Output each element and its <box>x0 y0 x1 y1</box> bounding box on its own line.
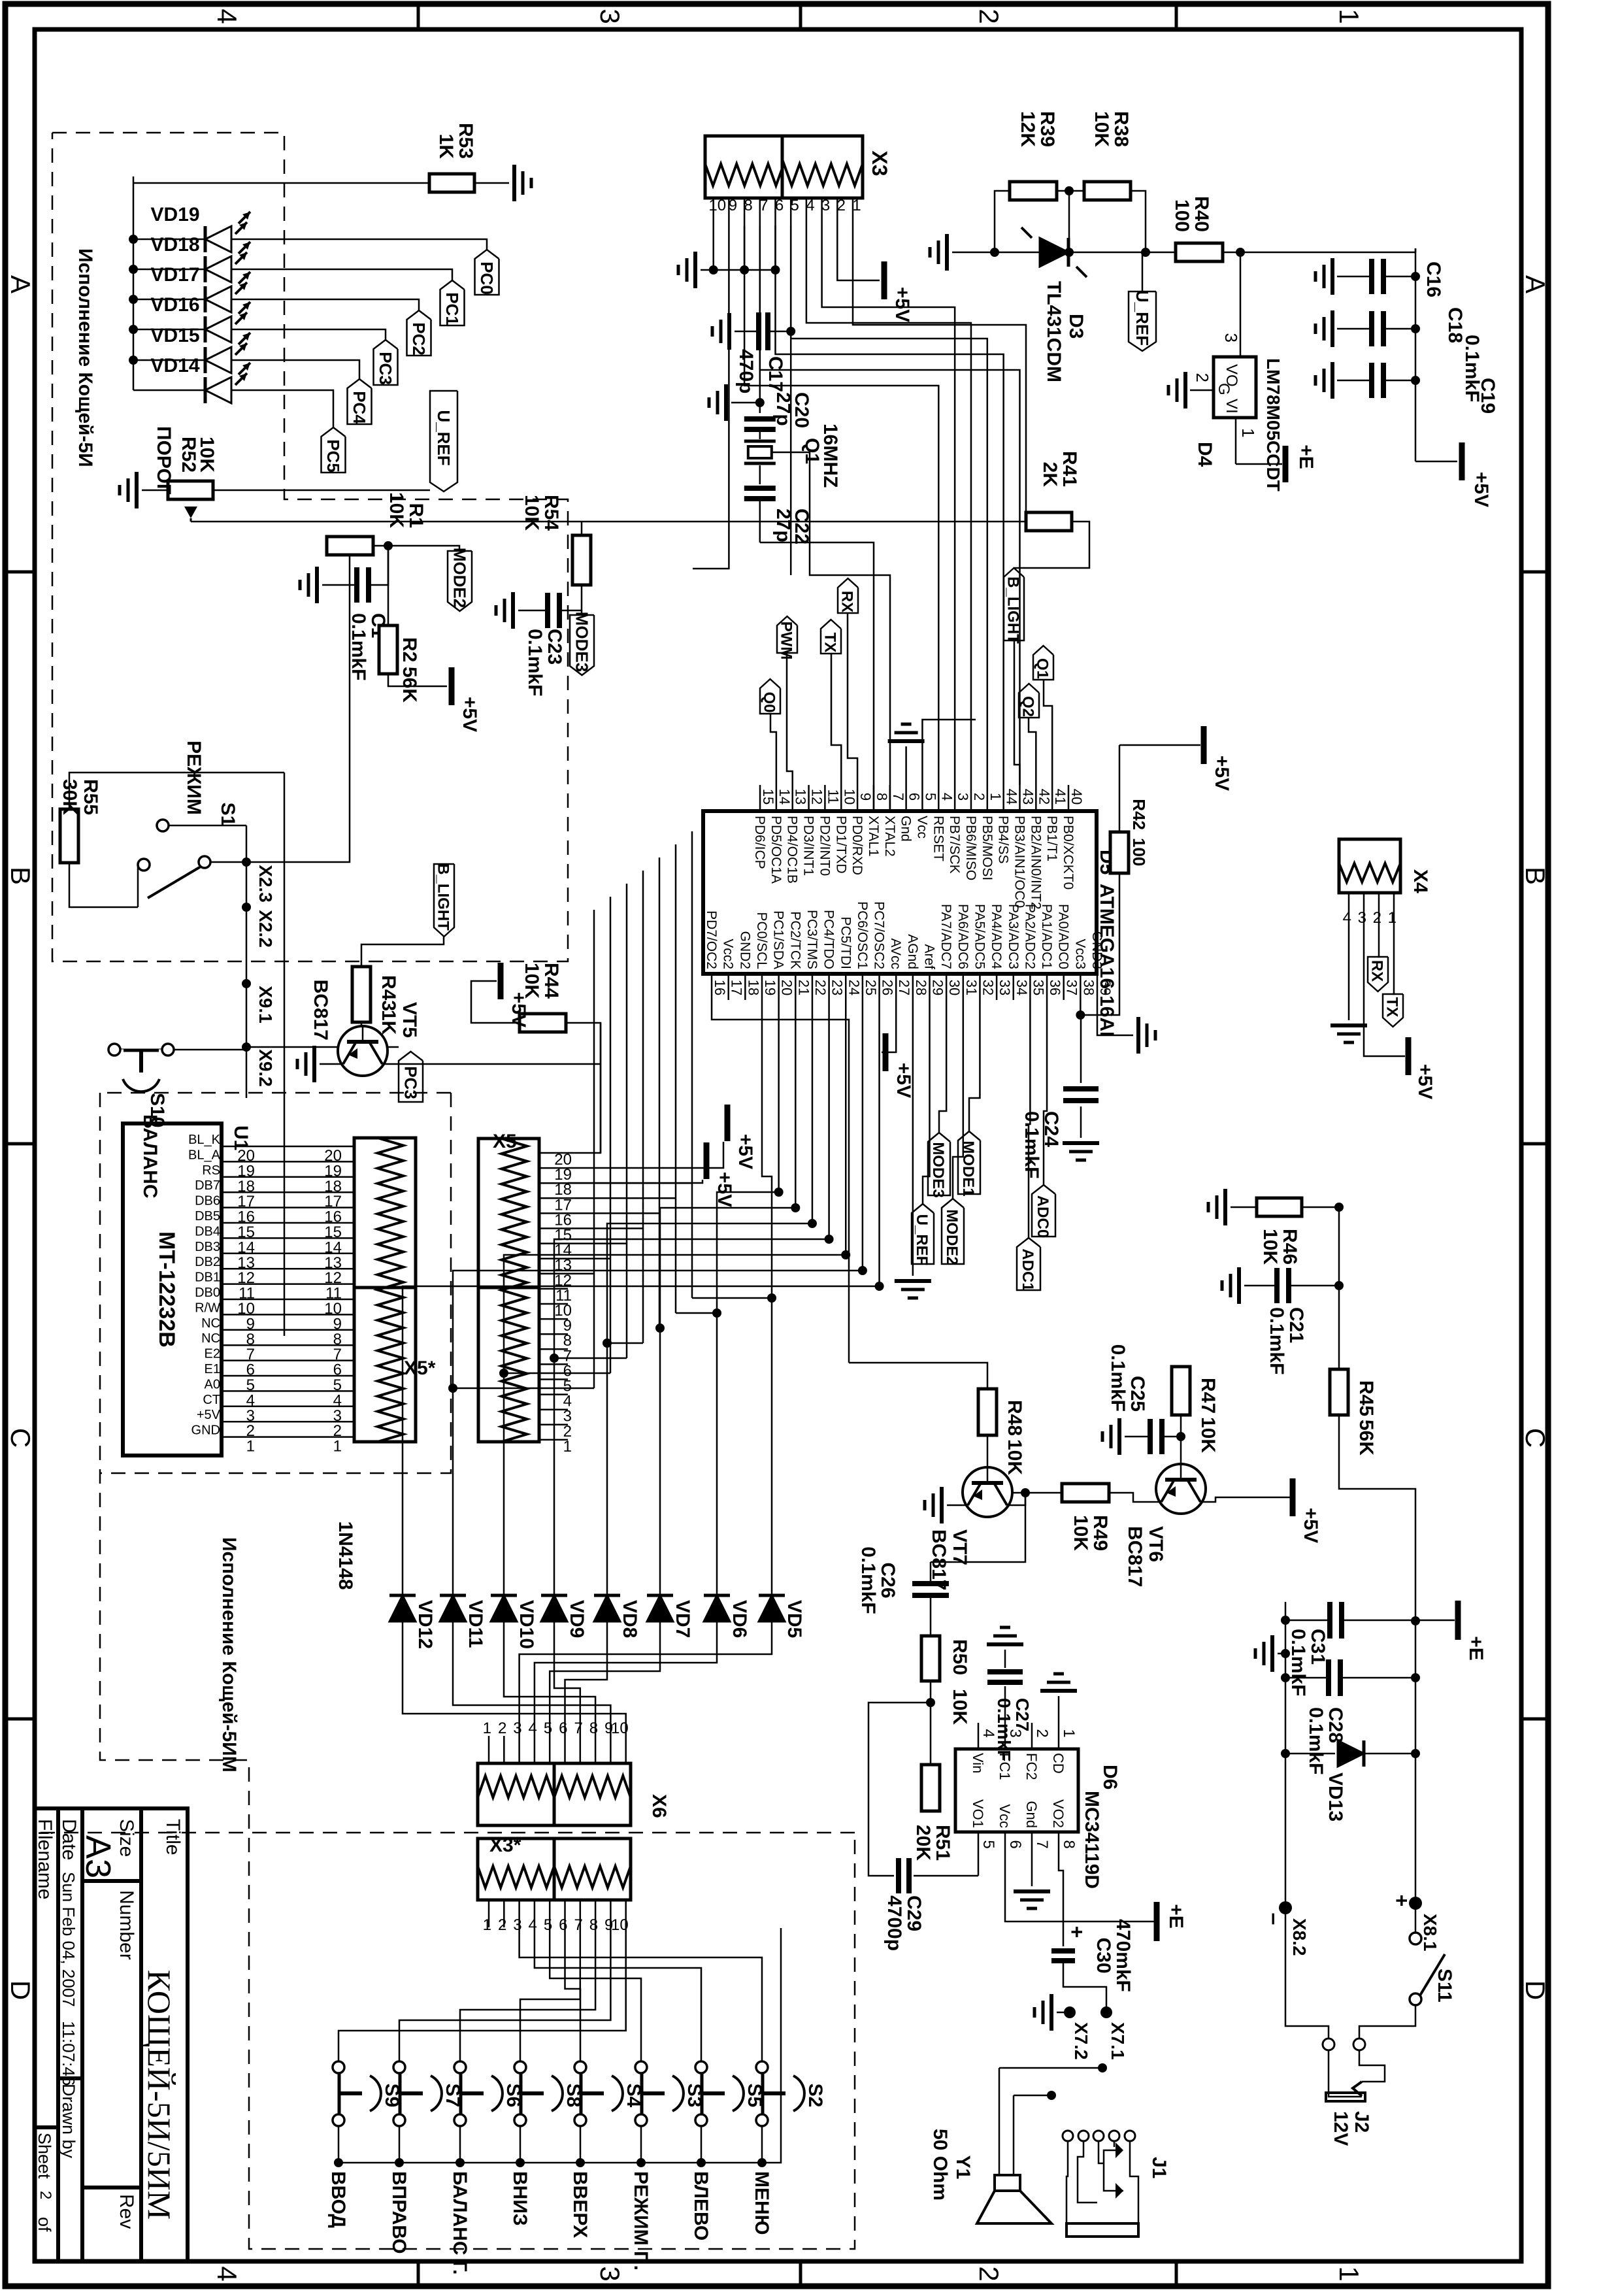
pin 12 X5 <box>539 1273 568 1275</box>
svg-text:DB2: DB2 <box>195 1255 220 1269</box>
svg-text:X2.3: X2.3 <box>256 865 276 903</box>
power +E battery <box>1455 1601 1461 1640</box>
pin 11 U1 DB1 <box>222 1283 252 1285</box>
svg-text:6: 6 <box>1006 1840 1024 1848</box>
junction X2.2 <box>242 903 251 912</box>
svg-text:VD18: VD18 <box>150 234 199 256</box>
wire VD10 anode to X6 pin <box>504 1622 595 1736</box>
svg-text:A: A <box>5 275 36 293</box>
pin 27 MCU AVcc <box>895 974 897 1000</box>
svg-text:CD: CD <box>1050 1753 1066 1774</box>
wire bus X2 line <box>284 773 286 1336</box>
resistor R46 10K <box>1257 1198 1302 1216</box>
svg-text:Sun Feb 04, 2007: Sun Feb 04, 2007 <box>59 1872 78 2007</box>
svg-text:PC4/TDO: PC4/TDO <box>821 910 836 969</box>
wire VD5 anode to X6 pin <box>520 1622 772 1736</box>
ground VT5 <box>312 1046 316 1082</box>
svg-text:1: 1 <box>246 1438 255 1456</box>
ground D6 <box>1014 1889 1050 1893</box>
wire D6 Gnd pin7 <box>1031 1858 1033 1886</box>
svg-text:3: 3 <box>1358 909 1366 927</box>
wire MODE3 flag <box>939 1000 946 1133</box>
svg-text:VD14: VD14 <box>150 355 199 376</box>
wire B_LIGHT to pin43 <box>1014 641 1019 785</box>
svg-text:DB1: DB1 <box>195 1271 220 1285</box>
wire R45 to +E rail <box>1339 1415 1415 1621</box>
svg-text:41: 41 <box>1052 789 1068 805</box>
svg-text:11:07:46: 11:07:46 <box>59 2021 78 2086</box>
svg-text:10K: 10K <box>1091 111 1112 147</box>
svg-text:+5V: +5V <box>735 1134 756 1169</box>
svg-text:10K: 10K <box>1259 1229 1281 1265</box>
net flag PC1 <box>440 280 465 325</box>
pin 15 X5 <box>539 1227 568 1229</box>
svg-text:7: 7 <box>574 1720 582 1737</box>
svg-text:+: + <box>1390 1895 1413 1907</box>
wire R38-R39 junction <box>1057 190 1084 192</box>
svg-text:+E: +E <box>1465 1636 1487 1661</box>
svg-text:GND2: GND2 <box>737 931 752 969</box>
svg-text:R50: R50 <box>949 1639 970 1675</box>
wire Q2 flag <box>1029 718 1036 785</box>
svg-text:DB4: DB4 <box>195 1224 220 1239</box>
svg-text:2: 2 <box>837 197 846 214</box>
wire X3 pin6 to MCU pin 44 <box>776 225 1004 785</box>
ground C19 <box>1331 362 1334 399</box>
pin 2 X4 <box>1378 893 1380 920</box>
capacitor C26 0.1mkF <box>912 1581 949 1586</box>
svg-text:R53: R53 <box>455 123 476 159</box>
svg-text:16MHZ: 16MHZ <box>819 424 841 488</box>
svg-text:J2: J2 <box>1351 2111 1372 2133</box>
svg-text:D: D <box>5 1980 36 2000</box>
wire X3* pins 1 2 <box>489 1927 781 1944</box>
svg-text:PC2/TCK: PC2/TCK <box>787 911 802 969</box>
svg-text:20: 20 <box>779 980 795 995</box>
svg-text:3: 3 <box>513 1916 521 1934</box>
svg-text:MODE3: MODE3 <box>572 612 592 672</box>
svg-text:X3: X3 <box>868 150 891 176</box>
svg-text:X3*: X3* <box>489 1835 521 1856</box>
wire GND3 ground <box>1097 1000 1133 1035</box>
wire VD7 anode to X6 pin <box>550 1622 660 1736</box>
net flag B_LIGHT upper <box>1004 568 1024 641</box>
pin 3 X6 <box>518 1736 520 1763</box>
wire R47 left to R45 area <box>1181 1340 1339 1367</box>
wire X5 bus lines <box>568 1182 692 1184</box>
capacitor C19 <box>1383 380 1415 382</box>
net flag B_LIGHT lower <box>434 864 454 937</box>
wire LED bus <box>133 176 135 390</box>
svg-text:28: 28 <box>913 980 929 995</box>
switch S1 REZHIM <box>157 820 169 831</box>
wire MCU pin 23 to diode row <box>554 1000 829 1595</box>
pin 7 X6 <box>580 1736 582 1763</box>
svg-text:VD6: VD6 <box>729 1600 750 1638</box>
svg-text:50 Ohm: 50 Ohm <box>929 2129 951 2201</box>
pin 2 MCU PB6/MISO <box>970 785 972 811</box>
svg-text:4: 4 <box>938 793 955 801</box>
ground VT7 emitter <box>931 1505 963 1523</box>
net flag PC2 <box>407 310 431 356</box>
wire X3 pin5 line <box>790 225 792 575</box>
wire X3 pin2 to +5V <box>837 225 880 280</box>
svg-text:4: 4 <box>212 2266 242 2281</box>
pin 7 X3 <box>759 198 761 225</box>
svg-text:VD17: VD17 <box>150 264 199 286</box>
svg-text:R2: R2 <box>399 637 420 662</box>
svg-text:NC: NC <box>201 1316 220 1331</box>
svg-text:C23: C23 <box>544 629 565 665</box>
svg-text:31: 31 <box>963 980 980 995</box>
wire minus rail <box>1285 1602 1287 1908</box>
svg-text:ADC1: ADC1 <box>1019 1248 1036 1291</box>
pin 4 MCU RESET <box>938 785 940 811</box>
svg-text:7: 7 <box>759 197 768 214</box>
svg-text:VT7: VT7 <box>949 1529 970 1565</box>
wire R55 <box>69 773 284 809</box>
wire ADC1 flag <box>1029 1000 1030 1238</box>
svg-text:12: 12 <box>809 789 825 805</box>
svg-text:1: 1 <box>1238 428 1258 437</box>
wire S1 throw <box>210 861 246 863</box>
button S5 <box>695 2061 707 2073</box>
wire long buses middle <box>691 831 693 1298</box>
wire X4 pin1 <box>1388 920 1394 946</box>
wire R52 wiper long <box>191 521 1026 523</box>
svg-text:BL_A: BL_A <box>188 1148 221 1162</box>
pin 2 D6 FC2 <box>1031 1723 1033 1749</box>
svg-text:G: G <box>1215 383 1232 395</box>
power +5V power-entry <box>1415 461 1457 463</box>
svg-text:6: 6 <box>775 197 784 214</box>
wire line R46 R45 <box>1338 1207 1340 1369</box>
dashed box variant Koschei-5I <box>52 133 568 961</box>
svg-text:2: 2 <box>498 1720 506 1737</box>
svg-text:S9: S9 <box>381 2084 403 2108</box>
pin 13 MCU PD4/OC1B <box>791 785 793 811</box>
svg-text:ВВОД: ВВОД <box>327 2171 349 2228</box>
svg-text:S8: S8 <box>563 2084 584 2108</box>
pin 20 X5 <box>539 1152 568 1154</box>
svg-text:D3: D3 <box>1065 314 1087 339</box>
ground R46 <box>1231 1206 1257 1208</box>
wire MODE1 flag <box>969 1000 980 1131</box>
svg-text:4: 4 <box>212 8 242 24</box>
svg-text:5: 5 <box>980 1840 997 1848</box>
wire R40 branch <box>1069 252 1240 254</box>
junction X9.1 <box>242 979 251 988</box>
pin 5 X6 <box>549 1736 551 1763</box>
wire VD8 anode to X6 pin <box>565 1622 608 1736</box>
ground C16 <box>1331 258 1334 295</box>
ground X7.2 <box>1057 2012 1070 2014</box>
wire J1 to amp <box>1102 2052 1136 2130</box>
svg-text:0.1mkF: 0.1mkF <box>1287 1629 1309 1696</box>
net flag U_REF power <box>1142 252 1144 291</box>
capacitor C21 0.1mkF <box>1290 1285 1339 1287</box>
junction X9.2 <box>242 1042 251 1052</box>
pin 9 U1 R/W <box>222 1314 252 1316</box>
svg-text:10K: 10K <box>521 495 542 531</box>
pin 3 J1 <box>1093 2131 1104 2141</box>
svg-text:PA0/ADC0: PA0/ADC0 <box>1056 904 1071 969</box>
svg-text:+5V: +5V <box>1300 1508 1321 1543</box>
wire R54 line <box>581 522 583 535</box>
svg-text:VT6: VT6 <box>1145 1526 1166 1562</box>
pin 15 U1 DB5 <box>222 1222 252 1224</box>
svg-text:ВЛЕВО: ВЛЕВО <box>690 2171 712 2240</box>
svg-text:+5V: +5V <box>459 697 480 732</box>
dashed box variant Koschei-5IM <box>100 1093 855 2249</box>
svg-text:ВПРАВО: ВПРАВО <box>388 2171 410 2254</box>
pin 13 X5 <box>539 1257 568 1259</box>
pin 18 MCU GND2 <box>744 974 746 1000</box>
wire S8 to common <box>520 2126 521 2163</box>
wire S4 to common <box>580 2126 582 2163</box>
wire bus drop 5 <box>504 1373 610 1374</box>
svg-text:NC: NC <box>201 1331 220 1346</box>
power +5V X4 <box>1406 1037 1412 1075</box>
pin 10 X6 <box>625 1736 627 1763</box>
ground X4 <box>1331 1023 1367 1027</box>
pin 7 D6 Gnd <box>1031 1832 1033 1858</box>
wire VD15 to flag PC4 <box>231 360 359 379</box>
diode D3 TL431CDM zener <box>1040 238 1068 267</box>
wire U_REF flag <box>923 1000 930 1204</box>
wire MCU pin 20 to diode row <box>717 1000 779 1595</box>
pin 32 MCU PA5/ADC5 <box>979 974 981 1000</box>
svg-text:35: 35 <box>1030 980 1046 995</box>
svg-text:МЕНЮ: МЕНЮ <box>751 2171 772 2235</box>
svg-text:PB3/AIN1/OC0: PB3/AIN1/OC0 <box>1012 816 1027 908</box>
pin 18 X5 <box>539 1182 568 1184</box>
power +5V X3 <box>882 261 887 299</box>
pin 9 X3* <box>610 1900 612 1927</box>
diode VD5 1N4148 <box>759 1595 785 1622</box>
svg-text:BC817: BC817 <box>310 980 331 1040</box>
wire R53 to ground <box>474 182 509 184</box>
svg-text:25: 25 <box>863 980 879 995</box>
svg-text:27p: 27p <box>772 392 794 426</box>
transistor VT7 BC817 <box>963 1467 1012 1517</box>
net flag U_REF pot <box>430 391 457 491</box>
svg-text:2: 2 <box>1373 909 1381 927</box>
pin 6 X6 <box>564 1736 566 1763</box>
wire speaker leads <box>1004 2096 1015 2175</box>
svg-text:X7.2: X7.2 <box>1071 2022 1091 2060</box>
pin 42 MCU PB2/AIN0/INT2 <box>1035 785 1037 811</box>
pin 41 MCU PB1/T1 <box>1051 785 1053 811</box>
svg-text:PC3/TMS: PC3/TMS <box>804 910 819 969</box>
pin 6 X3 <box>774 198 776 225</box>
junction X8.2 <box>1279 1901 1292 1914</box>
pin 19 U1 BL_A <box>222 1161 252 1163</box>
svg-text:10K: 10K <box>196 437 218 473</box>
pin 1 D6 CD <box>1058 1723 1060 1749</box>
svg-text:R48: R48 <box>1004 1400 1025 1436</box>
svg-text:VD11: VD11 <box>465 1600 486 1648</box>
wire VT7 base R48 <box>987 1435 989 1467</box>
svg-text:C: C <box>5 1428 36 1448</box>
pin 20 MCU PC1/SDA <box>778 974 780 1000</box>
net flag PC5 <box>322 427 346 473</box>
pin 31 MCU PA6/ADC6 <box>963 974 965 1000</box>
ground R53 <box>512 165 516 201</box>
svg-text:MODE2: MODE2 <box>943 1209 961 1265</box>
svg-text:PB2/AIN0/INT2: PB2/AIN0/INT2 <box>1028 816 1043 910</box>
svg-text:100: 100 <box>1129 838 1149 866</box>
pin 3 MCU PB7/SCK <box>954 785 956 811</box>
net flag PC4 <box>348 379 372 424</box>
pin 13 U1 DB3 <box>222 1253 252 1255</box>
svg-text:2: 2 <box>1033 1729 1051 1737</box>
svg-text:RS: RS <box>202 1163 220 1178</box>
wire R1 to MODE2 <box>373 546 459 551</box>
svg-text:X5*: X5* <box>404 1357 436 1379</box>
svg-text:VD7: VD7 <box>672 1600 693 1638</box>
pin 4 J1 <box>1078 2131 1089 2141</box>
svg-text:0.1mkF: 0.1mkF <box>1107 1344 1129 1412</box>
svg-text:10: 10 <box>841 789 857 805</box>
connector X4 <box>1339 839 1400 893</box>
svg-text:PC4: PC4 <box>350 391 369 424</box>
svg-text:PC1: PC1 <box>442 292 462 325</box>
wire S5 to common <box>701 2126 703 2163</box>
pin 16 U1 DB6 <box>222 1206 252 1208</box>
pin 3 U1 CT <box>222 1406 252 1408</box>
svg-text:0.1mkF: 0.1mkF <box>1305 1707 1327 1774</box>
svg-text:TL431CDM: TL431CDM <box>1043 281 1065 382</box>
wire +5V rail power <box>1415 248 1417 461</box>
svg-text:Y1: Y1 <box>952 2155 974 2180</box>
wire S7 to common <box>399 2126 401 2163</box>
resistor R38 10K <box>1084 182 1131 200</box>
svg-text:12K: 12K <box>1017 111 1038 147</box>
svg-text:PB0/XCKT0: PB0/XCKT0 <box>1061 816 1076 890</box>
wire Q0 <box>770 714 776 785</box>
LED VD16 <box>133 329 204 331</box>
svg-text:C31: C31 <box>1307 1629 1329 1665</box>
svg-text:C30: C30 <box>1093 1937 1114 1973</box>
power +5V X5 pair <box>725 1105 731 1141</box>
ground MCU pin6 <box>888 739 925 743</box>
pin 8 D6 VO2 <box>1058 1832 1060 1858</box>
svg-text:16: 16 <box>712 980 728 995</box>
svg-text:U_REF: U_REF <box>434 410 454 465</box>
svg-text:C: C <box>1520 1428 1551 1448</box>
svg-text:Исполнение Кощей-5И: Исполнение Кощей-5И <box>74 248 96 467</box>
wire D3 anode to ground <box>952 252 1040 254</box>
svg-text:R39: R39 <box>1036 111 1058 147</box>
svg-text:8: 8 <box>744 197 752 214</box>
svg-text:1: 1 <box>333 1438 342 1456</box>
svg-text:100: 100 <box>1171 199 1193 232</box>
svg-text:27p: 27p <box>772 508 794 542</box>
svg-text:of: of <box>35 2217 54 2232</box>
svg-text:R51: R51 <box>932 1825 953 1861</box>
svg-text:Q2: Q2 <box>1019 696 1037 717</box>
capacitor C22 27p <box>744 486 776 491</box>
pin 10 X3 <box>712 198 714 225</box>
switch S11 <box>1415 1903 1417 1933</box>
resistor R50 10K <box>921 1636 940 1681</box>
svg-text:6: 6 <box>906 793 923 801</box>
pin 10 X3* <box>625 1900 627 1927</box>
wire X3 pin5 to MCU pin 1 <box>791 225 987 785</box>
pin 3 X3 <box>821 198 823 225</box>
svg-text:PB6/MISO: PB6/MISO <box>963 816 978 880</box>
svg-text:R41: R41 <box>1059 451 1080 487</box>
svg-text:VD13: VD13 <box>1325 1772 1346 1822</box>
pin 3 X3* <box>518 1900 520 1927</box>
svg-text:X9.2: X9.2 <box>256 1049 276 1087</box>
svg-text:RX: RX <box>838 591 856 612</box>
ground C23 <box>511 592 515 629</box>
wire X3 pin9 line <box>693 225 729 569</box>
svg-text:DB3: DB3 <box>195 1240 220 1254</box>
pin 6 MCU Gnd <box>905 785 907 811</box>
wire MCU pin 26 to diode row <box>403 1000 880 1595</box>
pin 4 X3 <box>806 198 808 225</box>
net flags ADC MODE near MCU right <box>1032 1185 1055 1237</box>
pin 6 D6 Vcc <box>1004 1832 1006 1858</box>
svg-text:Title: Title <box>162 1819 184 1855</box>
svg-text:29: 29 <box>930 980 946 995</box>
svg-text:2: 2 <box>37 2191 54 2199</box>
svg-text:+5V: +5V <box>893 1063 914 1098</box>
pin 23 MCU PC4/TDO <box>828 974 830 1000</box>
wire TX <box>831 654 841 785</box>
LED VD14 <box>133 390 204 391</box>
pin 25 MCU PC6/OSC1 <box>862 974 864 1000</box>
ground C21 <box>1237 1267 1241 1304</box>
capacitor C18 <box>1383 328 1415 330</box>
net flag Q2 <box>1019 684 1039 718</box>
power +5V R2 <box>388 674 447 686</box>
svg-text:26: 26 <box>880 980 896 995</box>
svg-text:7: 7 <box>574 1916 582 1934</box>
svg-text:ADC0: ADC0 <box>1034 1195 1051 1238</box>
svg-text:VD15: VD15 <box>150 325 199 346</box>
svg-text:PA3/ADC3: PA3/ADC3 <box>1006 904 1021 969</box>
svg-text:AVcc: AVcc <box>888 939 903 969</box>
svg-text:2: 2 <box>974 2266 1004 2281</box>
pin 1 X5 <box>539 1439 568 1441</box>
potentiometer R52 POROG 10K <box>168 481 213 499</box>
jack J1 contacts arrows <box>1116 2142 1123 2158</box>
power +5V rail MCU <box>1119 744 1200 746</box>
svg-text:8: 8 <box>589 1720 598 1737</box>
svg-text:4: 4 <box>529 1916 537 1934</box>
pin 8 X6 <box>595 1736 597 1763</box>
svg-text:Filename: Filename <box>34 1819 56 1899</box>
pin 10 MCU PD1/TXD <box>840 785 842 811</box>
pin 14 X5 <box>539 1242 568 1244</box>
pin 6 X5 <box>539 1363 568 1365</box>
svg-text:470p: 470p <box>735 349 757 393</box>
button S7 <box>393 2061 405 2073</box>
LED VD17 <box>133 299 204 301</box>
svg-text:R45: R45 <box>1355 1380 1377 1416</box>
wire MCU pin 24 to diode row <box>504 1000 846 1595</box>
svg-text:+E: +E <box>1295 444 1317 469</box>
svg-text:Aref: Aref <box>922 944 937 969</box>
pin 1 X3 <box>852 198 854 225</box>
svg-text:R46: R46 <box>1279 1229 1300 1265</box>
svg-text:S11: S11 <box>1434 1969 1455 2003</box>
svg-text:36: 36 <box>1047 980 1063 995</box>
